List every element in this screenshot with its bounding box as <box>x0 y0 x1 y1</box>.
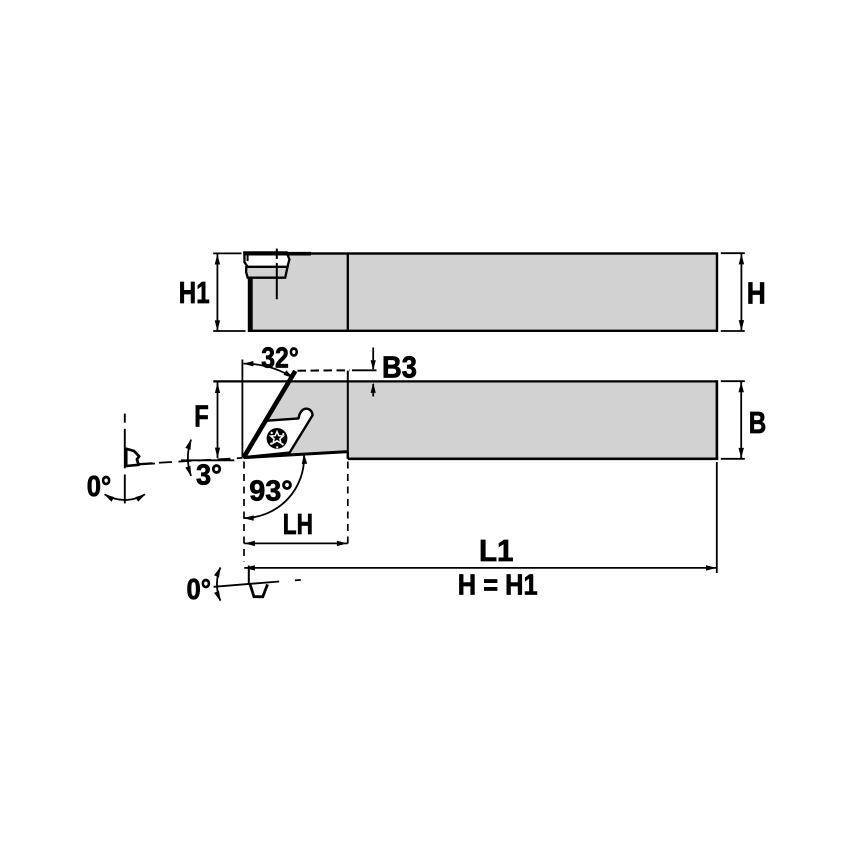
L1 dimension line <box>244 567 717 569</box>
side view: thick 32 deg leading edge <box>244 371 296 458</box>
H1 dimension extension line bottom <box>213 330 245 332</box>
side view: step at head/shank junction <box>347 452 349 459</box>
H1 dimension extension line top <box>213 252 241 254</box>
LH arrow left <box>244 541 255 546</box>
3 deg arc arrow top <box>185 439 191 450</box>
H1 dimension line <box>216 254 218 331</box>
svg-text:F: F <box>194 399 209 434</box>
B dimension extension line top <box>721 380 745 382</box>
left glyph horizontal line <box>139 464 155 465</box>
svg-text:B: B <box>749 405 767 440</box>
L1 right extension line <box>716 462 718 573</box>
bottom glyph slanted reference line <box>214 582 280 587</box>
H dimension line <box>740 254 742 331</box>
top view: insert pocket inner step vertical <box>247 254 249 261</box>
H dimension extension line bottom <box>721 330 745 332</box>
dashed line from head top vertex <box>298 369 351 371</box>
H1 arrow bottom <box>215 320 220 331</box>
3 deg arc <box>188 440 191 476</box>
svg-text:H: H <box>747 275 766 310</box>
bottom glyph dash <box>295 579 301 582</box>
B arrow bottom <box>739 448 744 459</box>
top view: thick left edge <box>248 277 252 331</box>
left 0 deg arrow right <box>135 494 145 502</box>
F arrow bottom <box>215 448 220 459</box>
svg-text:0°: 0° <box>87 471 112 503</box>
H1 arrow top <box>215 254 220 265</box>
bottom 0 deg arrow bottom <box>214 591 221 602</box>
B3 lower arrow <box>372 384 374 397</box>
bottom 0 deg arrow top <box>214 567 221 578</box>
dashed extension below shank (LH right) <box>347 462 349 549</box>
32 deg arc arrow left <box>243 361 254 366</box>
top view: insert centerline <box>276 249 278 259</box>
left 0 deg arrow left <box>104 494 114 502</box>
B3 upper arrow <box>372 348 374 370</box>
insert (white rhombus) in side view <box>244 409 313 458</box>
left glyph centerline dashes <box>124 414 126 423</box>
LH arrow right <box>337 541 348 546</box>
top view: toolholder body (plan view) <box>249 254 717 331</box>
svg-text:93°: 93° <box>249 476 293 508</box>
solid stub above bottom glyph <box>248 566 250 584</box>
H arrow bottom <box>739 320 744 331</box>
side view: right edge <box>716 380 719 460</box>
H dimension extension line top <box>721 252 745 254</box>
H arrow top <box>739 254 744 265</box>
svg-text:LH: LH <box>283 509 313 541</box>
screw head (torx) <box>267 428 288 449</box>
svg-text:B3: B3 <box>382 350 417 385</box>
svg-text:H1: H1 <box>179 275 210 310</box>
LH dimension line <box>244 542 348 544</box>
L1 arrow left <box>244 565 255 570</box>
B dimension line <box>740 382 742 459</box>
F dimension line <box>217 383 219 459</box>
top view: head/shank divider line <box>347 254 349 331</box>
B arrow top <box>739 382 744 393</box>
B dimension extension line bottom <box>721 458 745 460</box>
vertical line at head/shank boundary <box>347 371 349 459</box>
left dashed extension below tip <box>243 462 245 563</box>
bottom 0 deg arc <box>217 568 220 601</box>
solid extension to B3 <box>352 369 377 371</box>
F bottom extension line <box>181 459 234 461</box>
93 deg arc arrow top <box>302 454 307 465</box>
svg-text:0°: 0° <box>187 574 212 606</box>
top view: insert pocket upper face (white) <box>244 252 289 267</box>
3 deg dashed reference line to tip <box>140 458 243 464</box>
svg-text:L1: L1 <box>479 533 514 568</box>
svg-text:32°: 32° <box>261 342 299 374</box>
side view: bottom edge of shank <box>348 457 718 460</box>
bottom insert glyph (front view) <box>250 584 268 597</box>
L1 arrow right <box>706 565 717 570</box>
3 deg arc arrow bottom <box>185 466 191 477</box>
93 deg arc <box>244 454 305 518</box>
side view: shank + head gray body <box>244 381 717 458</box>
93 deg arc arrow bottom <box>243 515 254 520</box>
32 deg arc arrow right <box>284 370 294 378</box>
left insert glyph (side rake view) <box>126 449 139 466</box>
left 0 deg arc <box>105 494 145 500</box>
top view: thick cutting edge along top <box>243 252 311 256</box>
side view: top edge + left extension <box>213 380 717 382</box>
svg-text:H = H1: H = H1 <box>458 570 538 602</box>
F arrow top <box>215 382 220 393</box>
32 deg arc <box>244 364 294 378</box>
vertical extension above tip <box>241 360 243 458</box>
side view: head bottom cutting edge (3 deg) <box>244 452 348 458</box>
svg-text:3°: 3° <box>196 459 222 491</box>
top view: insert pocket lower band (gray) <box>246 267 287 278</box>
